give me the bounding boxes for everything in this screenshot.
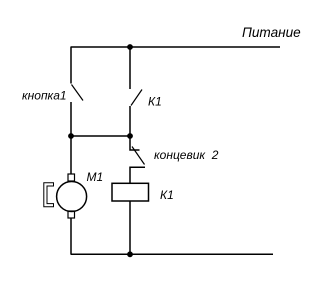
svg-text:К1: К1	[160, 188, 174, 202]
node junction bottom rail	[127, 251, 133, 257]
node junction top rail	[127, 44, 133, 50]
switch концевик 2 blade (normally closed)	[132, 147, 145, 165]
wire bottom return rail	[71, 253, 274, 255]
wire limit switch upper lead	[130, 136, 140, 150]
node junction middle rail	[127, 133, 133, 139]
motor M1 top terminal	[68, 174, 75, 181]
svg-text:концевик 2: концевик 2	[154, 148, 219, 162]
wire left rail middle segment	[70, 102, 72, 136]
wire motor to bottom rail	[70, 218, 72, 254]
wire coil to bottom rail	[129, 201, 131, 254]
wire limit switch lower lead	[130, 167, 145, 183]
wire left rail to motor	[70, 136, 72, 174]
motor M1 brush bracket	[44, 183, 54, 207]
wire middle rail upper segment	[129, 47, 131, 89]
switch кнопка1 blade	[72, 85, 84, 101]
svg-text:К1: К1	[148, 94, 162, 108]
wire left rail upper segment	[70, 47, 72, 84]
svg-text:кнопка1: кнопка1	[22, 89, 67, 103]
wire cross connector	[71, 135, 130, 137]
motor M1 bottom terminal	[68, 211, 75, 218]
node junction left rail	[68, 133, 74, 139]
wire middle rail segment to junction	[129, 106, 131, 136]
wire top supply rail	[71, 46, 281, 48]
svg-text:Питание: Питание	[242, 25, 301, 40]
motor M1 body	[57, 182, 87, 212]
switch contact K1 blade	[131, 90, 142, 106]
relay coil K1	[112, 183, 149, 201]
svg-text:М1: М1	[87, 170, 104, 184]
